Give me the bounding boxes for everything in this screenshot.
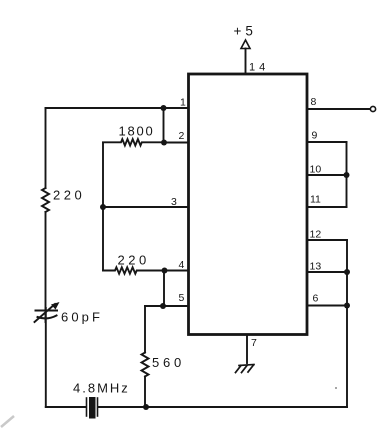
+5 supply arrow terminal <box>241 40 250 49</box>
junction dot bottom <box>143 404 149 410</box>
resistor R 220 (zigzag) <box>103 267 165 273</box>
pin 7 wire to ground <box>246 335 248 364</box>
pin 5 label <box>179 292 185 304</box>
wire left mid rail (1800 to 220) <box>102 143 104 271</box>
wire pin 10 <box>307 174 347 176</box>
wire right rail 12-6-bottom <box>346 240 348 407</box>
node pin1/pin2 link wire <box>163 108 165 143</box>
pin 8 label <box>311 96 317 108</box>
svg-text:1: 1 <box>180 97 186 109</box>
wire pin 1 <box>46 107 189 109</box>
wire bottom right (crystal to right rail) <box>98 406 347 408</box>
pin 13 label <box>310 261 322 273</box>
svg-text:6: 6 <box>313 293 319 305</box>
junction dot pin 10 <box>344 172 350 178</box>
wire left rail lower (60pF to bottom corner) <box>45 308 47 407</box>
wire left rail upper (pin1 corner to 220) <box>45 108 47 188</box>
svg-text:60pF: 60pF <box>61 310 103 325</box>
node pin4/pin5 link wire <box>163 271 165 307</box>
speck <box>335 387 337 389</box>
output terminal circle <box>370 106 375 111</box>
resistor R 1800 (zigzag) <box>103 139 164 145</box>
ground <box>236 365 255 373</box>
wire pin 8 output <box>307 108 371 110</box>
wire left rail middle (220 to 60pF) <box>45 212 47 322</box>
svg-text:13: 13 <box>310 261 322 273</box>
svg-text:220: 220 <box>118 253 150 268</box>
wire pin 2 <box>164 142 189 144</box>
resistor R 560 (vertical zigzag) <box>142 353 149 377</box>
capacitor arrow <box>35 304 56 322</box>
wire right rail 9-11 <box>346 142 348 207</box>
svg-text:4: 4 <box>179 259 185 271</box>
junction dot pin 2 <box>161 140 167 146</box>
pin 3 label <box>171 196 177 208</box>
junction dot pin 13 <box>344 269 350 275</box>
wire pin 3 <box>103 206 189 208</box>
svg-text:11: 11 <box>310 194 321 206</box>
capacitor C 60pF variable: top plate <box>36 310 58 312</box>
crystal Y1 4.8MHz <box>86 398 88 416</box>
wire pin 9 <box>307 141 347 143</box>
wire pin 4 <box>165 270 189 272</box>
svg-text:220: 220 <box>53 188 85 203</box>
capacitor 60pF value label <box>61 310 103 325</box>
pin 6 label <box>313 293 319 305</box>
pin 10 label <box>310 164 322 176</box>
svg-text:9: 9 <box>312 130 318 142</box>
IC U1 body (14-pin DIP) <box>189 74 308 335</box>
wire pin 6 <box>307 305 347 307</box>
svg-text:4.8MHz: 4.8MHz <box>73 381 130 396</box>
wire pin 14 to +5 <box>245 49 247 75</box>
svg-text:8: 8 <box>311 96 317 108</box>
pin 11 label <box>310 194 321 206</box>
resistor R 220 left (vertical zigzag) <box>42 188 49 212</box>
svg-text:1800: 1800 <box>119 124 155 139</box>
junction dot pin 6 <box>344 303 350 309</box>
svg-text:12: 12 <box>310 229 322 241</box>
resistor 220 left value label <box>53 188 85 203</box>
pin 1 label <box>180 97 186 109</box>
wire 560 branch lower <box>144 377 146 408</box>
crystal 4.8MHz value label <box>73 381 130 396</box>
wire pin 13 <box>307 271 347 273</box>
wire 560 branch upper <box>144 306 146 353</box>
capacitor C 60pF variable: bottom plate <box>38 316 57 319</box>
wire pin 11 <box>307 206 347 208</box>
wire pin 12 <box>307 239 347 241</box>
svg-text:10: 10 <box>310 164 322 176</box>
svg-text:560: 560 <box>152 355 185 370</box>
resistor 220 value label <box>118 253 150 268</box>
+5 supply label <box>234 24 257 39</box>
wire bottom left (corner to crystal) <box>46 406 86 408</box>
pin 9 label <box>312 130 318 142</box>
junction dot pin 5 <box>160 303 166 309</box>
scan smudge bottom-left <box>1 416 14 427</box>
pin 7 label <box>251 337 257 349</box>
pin 12 label <box>310 229 322 241</box>
junction dot pin 3 <box>100 204 106 210</box>
svg-text:5: 5 <box>179 292 185 304</box>
pin 14 label <box>249 62 269 74</box>
junction dot pin 1 <box>161 105 167 111</box>
junction dot pin 4 <box>162 268 168 274</box>
svg-text:14: 14 <box>249 62 269 74</box>
svg-text:7: 7 <box>251 337 257 349</box>
wire pin 5 <box>145 305 189 307</box>
pin 4 label <box>179 259 185 271</box>
resistor 1800 value label <box>119 124 155 139</box>
svg-text:2: 2 <box>179 130 185 142</box>
resistor 560 value label <box>152 355 185 370</box>
pin 2 label <box>179 130 185 142</box>
svg-text:+5: +5 <box>234 24 257 39</box>
